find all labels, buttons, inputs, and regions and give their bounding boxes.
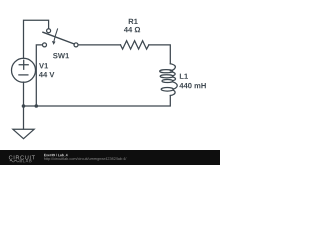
label 440 mH — [179, 83, 205, 88]
footer url — [44, 157, 126, 161]
label V1 — [39, 63, 48, 68]
wire bottom: node to inductor bottom — [24, 96, 171, 107]
label SW1 — [53, 53, 69, 58]
label 44 ohm — [124, 27, 140, 32]
wire: switch common right to resistor — [78, 44, 121, 46]
resistor R1 zigzag — [121, 41, 149, 49]
wire: switch throw B stub left and down to bottom node — [36, 45, 42, 106]
voltage source V1 circle — [12, 58, 36, 82]
label R1 — [129, 19, 138, 24]
label 44 V — [39, 72, 54, 77]
wire: V1 bottom down to ground — [23, 82, 25, 129]
footer logo LAB — [23, 159, 32, 162]
V1 minus sign — [19, 74, 28, 76]
labels — [39, 19, 206, 89]
switch SW1 common circle — [74, 43, 78, 47]
footer black bar — [0, 150, 220, 165]
switch SW1 throw A circle — [47, 29, 51, 33]
switch lever — [43, 32, 75, 44]
wire: resistor to inductor top — [149, 45, 170, 64]
inductor L1 coil — [170, 64, 175, 71]
switch SW1 throw B circle — [43, 43, 47, 47]
junction dot right — [35, 104, 39, 108]
footer logo square — [19, 159, 22, 162]
footer CircuitLab logo text CIRCUIT — [9, 155, 35, 159]
footer circuit title — [44, 154, 68, 157]
junction dot left — [22, 104, 26, 108]
footer logo wave — [10, 160, 19, 162]
switch actuation arrow — [54, 28, 58, 41]
label L1 — [180, 74, 188, 79]
wire top-left: V1 top up and over to switch throw A — [24, 20, 49, 58]
ground symbol — [13, 129, 34, 138]
V1 plus sign — [19, 60, 28, 69]
